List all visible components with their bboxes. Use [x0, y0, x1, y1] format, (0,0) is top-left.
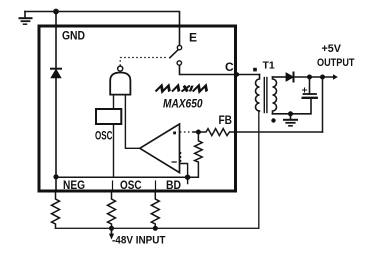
svg-text:-48V INPUT: -48V INPUT: [112, 234, 166, 246]
svg-text:OSC: OSC: [95, 129, 113, 143]
svg-text:NEG: NEG: [63, 178, 85, 192]
svg-text:OUTPUT: OUTPUT: [317, 57, 355, 69]
svg-text:E: E: [189, 31, 197, 45]
svg-text:BD: BD: [166, 178, 181, 192]
svg-text:GND: GND: [62, 29, 85, 43]
svg-text:T1: T1: [263, 60, 275, 72]
svg-text:+5V: +5V: [322, 43, 342, 55]
svg-text:MAX650: MAX650: [163, 97, 203, 111]
svg-text:OSC: OSC: [120, 178, 142, 192]
svg-text:C: C: [225, 60, 234, 74]
svg-text:FB: FB: [219, 113, 233, 127]
